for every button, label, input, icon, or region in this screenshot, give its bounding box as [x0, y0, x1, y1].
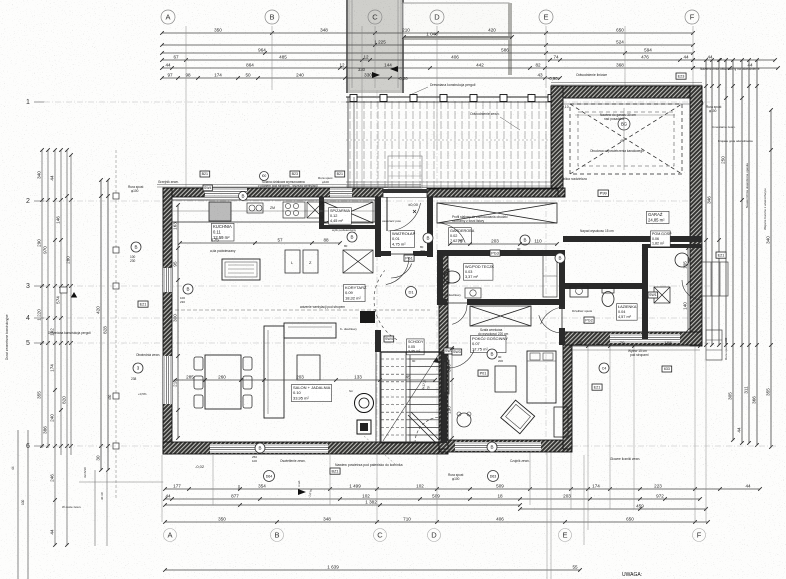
left dimension chains: [37, 148, 44, 448]
oven crossed: [307, 202, 323, 218]
window: [610, 334, 680, 343]
window: [205, 188, 247, 197]
level marker -0.20: [372, 72, 380, 78]
room label POKOJ GOSCINNY: [471, 336, 509, 353]
room label GARAZ: [647, 211, 669, 223]
bathroom sink: [570, 286, 588, 297]
garage P99 tag: [598, 190, 608, 196]
outside steps east: [702, 262, 728, 296]
terrace top beam: [346, 96, 558, 98]
wc closet: [543, 255, 557, 297]
cooktop: [283, 202, 305, 218]
kitchen counter: [172, 200, 375, 222]
wc east wall upper: [559, 250, 565, 309]
wall below garage: [563, 236, 702, 242]
bathroom toilet: [602, 292, 614, 307]
boiler: [675, 253, 689, 267]
wc south wall left: [437, 299, 447, 305]
grid row lines: [44, 101, 710, 103]
scan page edge box: [403, 3, 509, 38]
side cabinet: [554, 407, 568, 437]
partition vestibule east: [427, 197, 433, 257]
wc west wall: [437, 250, 443, 305]
coffee table: [297, 355, 320, 380]
dining chairs: [194, 357, 252, 408]
stairs: [381, 352, 441, 443]
vestibule south wall right: [413, 251, 427, 256]
window: [455, 442, 541, 451]
east outdoor steps lower: [706, 330, 722, 360]
scan fold grey strip: [346, 0, 404, 93]
window: [210, 444, 328, 453]
wc east wall lower: [559, 328, 565, 345]
corridor closets: [285, 250, 300, 273]
garage right wall / building east wall: [690, 86, 702, 346]
room label SCHODY: [407, 339, 425, 355]
corridor wardrobe crossed: [343, 250, 373, 273]
toilet wc: [444, 271, 460, 283]
room label WIATROLAP: [391, 231, 416, 248]
room label GARDEROBA: [449, 228, 475, 245]
grid axis letters bottom: [164, 529, 177, 542]
dining table: [205, 355, 241, 409]
kitchen island: [222, 259, 260, 280]
wc north wall: [437, 250, 565, 256]
room label KUCHNIA: [212, 223, 234, 241]
small chair: [457, 413, 471, 427]
garage gate ceiling recess crossed: [570, 104, 682, 174]
room label LAZIENKA: [617, 304, 638, 321]
partition pantry/vestibule west: [375, 197, 381, 257]
stairs west wall segment: [375, 330, 381, 352]
room label KORYTARZ: [344, 285, 367, 302]
terrace left edge: [347, 97, 349, 189]
wc south wall right: [467, 299, 565, 305]
garage left wall: [551, 86, 563, 190]
north wall of house: [163, 188, 565, 197]
garage tag BG: [618, 118, 630, 130]
grid axis letters top: [161, 10, 175, 24]
pom gosp north wall: [648, 244, 702, 248]
bathroom north wall: [565, 283, 648, 289]
room label POM GOSP: [651, 231, 673, 247]
window: [330, 188, 352, 197]
armchair rotated: [501, 400, 535, 434]
east wing south wall: [563, 332, 702, 345]
pantry west wall: [319, 197, 324, 228]
terrace south wall: [421, 189, 558, 197]
stairs east wall: [441, 352, 447, 443]
south wall living room: [163, 442, 448, 454]
guest table: [495, 366, 516, 392]
sofa L-shape: [264, 326, 284, 418]
pantry crossed wardrobe: [324, 202, 373, 223]
guest room east wall: [563, 332, 572, 449]
garage inner dim: [575, 114, 675, 116]
bathroom east wall: [642, 244, 648, 339]
south wall guest room: [439, 440, 572, 452]
pantry south wall: [319, 225, 377, 229]
bed: [527, 351, 556, 403]
guest room west wall: [439, 253, 448, 449]
bottom dimension chains: [163, 484, 762, 491]
garderoba wardrobe crossed: [437, 203, 557, 223]
fridge: [209, 202, 231, 221]
guest wardrobe crossed: [470, 306, 531, 326]
garage top wall: [551, 86, 702, 98]
washer crossed: [654, 287, 670, 303]
entry door: [383, 188, 427, 197]
room label SALON: [292, 385, 332, 402]
window: [163, 356, 172, 404]
chimney block: [360, 311, 375, 323]
terrace pergola joists: [350, 101, 553, 188]
room label WC: [464, 264, 495, 281]
sink: [247, 203, 263, 213]
vestibule south wall left: [381, 251, 391, 256]
benchmark triangle: [71, 292, 77, 298]
fireplace stove: [355, 394, 374, 413]
west wall: [163, 188, 172, 454]
right dimension chains: [704, 58, 708, 347]
top dimension chains: [160, 28, 695, 35]
window: [163, 268, 172, 292]
room label SPIZARNIA: [329, 208, 352, 225]
